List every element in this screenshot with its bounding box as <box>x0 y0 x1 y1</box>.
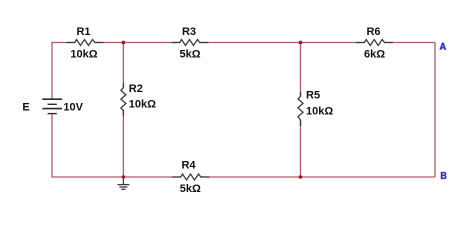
resistor R1 <box>66 40 103 46</box>
svg-text:10kΩ: 10kΩ <box>70 48 97 60</box>
resistor R4 <box>172 174 209 180</box>
svg-text:10kΩ: 10kΩ <box>129 99 156 111</box>
junction node at R3/R5/R6 <box>299 41 303 45</box>
svg-text:R4: R4 <box>181 159 196 171</box>
resistor R3 <box>171 40 208 46</box>
svg-text:5kΩ: 5kΩ <box>180 183 201 195</box>
wire bottom net (battery minus to node B corner) <box>52 114 435 177</box>
resistor R6 <box>356 40 393 46</box>
wire top net (left corner to node A corner) <box>52 43 435 100</box>
junction node ground/R2/R4 <box>122 175 126 179</box>
battery E (DC source) <box>42 99 62 113</box>
svg-text:R1: R1 <box>76 26 90 38</box>
svg-text:R6: R6 <box>366 26 380 38</box>
node A label <box>440 43 447 50</box>
svg-text:6kΩ: 6kΩ <box>364 48 385 60</box>
svg-text:R5: R5 <box>306 90 320 102</box>
wire R2 branch <box>122 43 124 178</box>
svg-text:10V: 10V <box>63 102 83 114</box>
svg-text:R3: R3 <box>182 26 196 38</box>
ground <box>117 177 129 189</box>
resistor R2 <box>121 83 126 116</box>
svg-text:E: E <box>22 102 29 114</box>
svg-text:10kΩ: 10kΩ <box>306 106 333 118</box>
node B label <box>441 172 447 179</box>
svg-text:5kΩ: 5kΩ <box>179 48 200 60</box>
junction node at R1/R2/R3 <box>122 41 126 45</box>
svg-text:R2: R2 <box>129 83 143 95</box>
resistor R5 <box>298 92 303 126</box>
wire right branch A-B <box>434 43 436 178</box>
wire R5 branch <box>300 43 302 178</box>
junction node R4/R5 bottom <box>299 175 303 179</box>
